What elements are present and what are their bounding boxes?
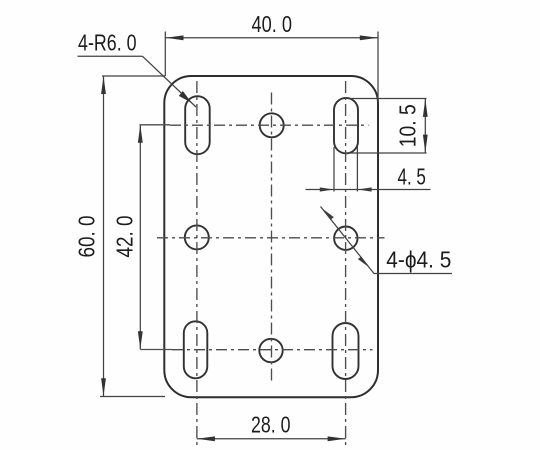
dim 10.5 extension line bottom [347, 152, 427, 154]
svg-text:60. 0: 60. 0 [74, 216, 100, 258]
centerline vertical center column [271, 93, 273, 382]
svg-text:28. 0: 28. 0 [251, 412, 291, 438]
dim 40.0 extension line right [377, 32, 379, 104]
slot bottom-left [184, 321, 208, 378]
dim 28.0 arrow left [197, 436, 215, 441]
dim 28.0 line [197, 438, 346, 440]
svg-text:4-ϕ4. 5: 4-ϕ4. 5 [386, 247, 451, 273]
plate outline [164, 76, 378, 397]
hole middle-right [334, 227, 357, 250]
svg-text:40. 0: 40. 0 [252, 11, 293, 37]
dim 4.5 line with shelf [306, 189, 431, 191]
dim 42.0 line [139, 125, 141, 350]
hole middle-left [185, 225, 209, 249]
label 4-R6.0 shelf [78, 55, 143, 57]
slot bottom-right [333, 323, 359, 379]
dim 4.5 extension line right [356, 147, 358, 192]
label 4-R6.0 leader [143, 56, 197, 107]
dim 10.5 arrow bottom [423, 135, 428, 153]
svg-text:4. 5: 4. 5 [397, 164, 426, 190]
dim 40.0 line [165, 37, 378, 39]
dim 10.5 line [424, 99, 426, 153]
svg-text:10. 5: 10. 5 [395, 104, 421, 147]
centerline horizontal bottom row [140, 349, 372, 351]
svg-text:4-R6. 0: 4-R6. 0 [78, 30, 137, 56]
dim 60.0 line [103, 76, 105, 397]
dim 10.5 extension line top [350, 98, 427, 100]
dim 28.0 arrow right [328, 436, 346, 441]
label 4-phi4.5 arrow lower (pointing down-right) [358, 257, 369, 268]
hole bottom-center [259, 339, 282, 362]
dim 42.0 arrow bottom [138, 331, 143, 349]
label 4-phi4.5 arrow upper (pointing up-left) [323, 209, 334, 220]
dim 40.0 extension line left [164, 32, 166, 77]
dim 60.0 extension line bottom [100, 396, 165, 398]
centerline vertical right column [345, 81, 347, 446]
dim 60.0 arrow bottom [101, 378, 106, 396]
dim 60.0 extension line top [102, 75, 165, 77]
slot top-left [185, 96, 210, 154]
slot top-right [334, 98, 358, 153]
label 4-phi4.5 leader [321, 207, 453, 274]
hole top-center [260, 113, 284, 137]
centerline vertical left column [196, 81, 198, 446]
dim 4.5 arrow right (outside, pointing left) [358, 187, 372, 191]
dim 10.5 arrow top [423, 99, 428, 117]
centerline horizontal middle row [157, 237, 385, 239]
svg-text:42. 0: 42. 0 [112, 216, 138, 258]
label 4-R6.0 arrow [179, 91, 192, 103]
dim 60.0 arrow top [101, 76, 106, 94]
centerline horizontal top row [140, 124, 369, 126]
dim 42.0 arrow top [138, 125, 143, 143]
dim 40.0 arrow left [166, 35, 184, 40]
dim 4.5 extension line left [333, 147, 335, 192]
dim 4.5 arrow left (outside, pointing right) [320, 187, 334, 191]
dim 40.0 arrow right [360, 35, 378, 40]
